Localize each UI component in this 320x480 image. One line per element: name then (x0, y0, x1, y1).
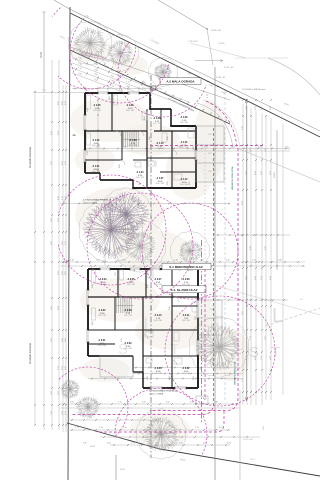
main diagonal boundary dark (70, 13, 320, 137)
svg-text:2.62 / 2.62: 2.62 / 2.62 (136, 177, 144, 179)
svg-text:+10.55: +10.55 (218, 43, 225, 45)
svg-text:A 2.11: A 2.11 (183, 314, 190, 317)
svg-text:2.62 / 2.62: 2.62 / 2.62 (156, 183, 164, 185)
svg-text:T: T (170, 341, 179, 358)
svg-text:0.90: 0.90 (109, 97, 111, 101)
tree T5 (170, 231, 209, 271)
right parcel vertical x=215 (214, 67, 216, 480)
svg-text:A 2.06: A 2.06 (155, 367, 163, 370)
svg-text:A 2.09: A 2.09 (125, 342, 133, 345)
svg-text:A 1.02: A 1.02 (93, 139, 101, 142)
section line x=201.5 (201, 240, 203, 422)
svg-text:5.10: 5.10 (99, 427, 103, 429)
svg-text:A 2.01: A 2.01 (99, 339, 107, 342)
svg-text:2.62 / 2.62: 2.62 / 2.62 (98, 315, 106, 317)
svg-text:±0.00 m² VISINA: ±0.00 m² VISINA (149, 392, 164, 395)
chain y=378.6 (88, 378, 242, 380)
svg-text:+0.00 = 103.50 mnm: +0.00 = 103.50 mnm (246, 89, 265, 91)
svg-text:hrvatskih branitelja: hrvatskih branitelja (29, 343, 32, 364)
svg-text:A 1.07: A 1.07 (157, 177, 165, 180)
magenta horizontal M4 (150, 145, 265, 147)
svg-text:A 1.04: A 1.04 (137, 171, 145, 174)
gray dashed guide line lower right (266, 308, 320, 326)
svg-text:2.00: 2.00 (147, 377, 149, 381)
door arcs b2 (120, 297, 125, 302)
svg-text:12.51 +45: 12.51 +45 (224, 67, 234, 69)
paper mottling (70, 98, 150, 142)
chain y=300 right (215, 299, 288, 301)
svg-text:S: S (249, 344, 259, 361)
svg-text:1.20: 1.20 (87, 109, 89, 113)
svg-text:2.85: 2.85 (70, 402, 74, 404)
svg-text:1.20: 1.20 (150, 147, 154, 149)
svg-text:3.05: 3.05 (285, 147, 289, 149)
svg-text:13.04 +45: 13.04 +45 (216, 77, 226, 79)
note A.5 (160, 78, 201, 84)
stairs building 2 (116, 298, 118, 313)
top horizontal line y=61 (195, 60, 223, 62)
svg-text:A 2.08: A 2.08 (183, 278, 191, 281)
svg-text:2.62 / 2.62: 2.62 / 2.62 (92, 145, 100, 147)
svg-text:1.75: 1.75 (195, 427, 199, 429)
svg-text:2.00: 2.00 (107, 443, 111, 445)
svg-text:2.62 / 2.62: 2.62 / 2.62 (126, 110, 134, 112)
building 1 outer walls (85, 92, 98, 94)
upper light diagonal L2 (158, 0, 207, 29)
svg-text:2.62 / 2.62: 2.62 / 2.62 (124, 315, 132, 317)
magenta setback M3 (150, 148, 238, 411)
svg-text:38.98: 38.98 (40, 51, 43, 58)
top-right light curve (268, 58, 320, 95)
tree T6b purple (100, 188, 151, 240)
svg-text:0.90: 0.90 (83, 443, 87, 445)
tree T4 (114, 220, 165, 272)
svg-text:2.62 / 2.62: 2.62 / 2.62 (127, 284, 135, 286)
section line x=151 (150, 75, 152, 458)
svg-text:24.30: 24.30 (274, 172, 276, 178)
building 2 east terrace (198, 300, 222, 352)
horizontal chain near wall y=88.5 (72, 88, 150, 90)
tree T6a purple (79, 198, 143, 263)
magenta canopy circle C9 (165, 296, 275, 406)
magenta NE arc M5 (206, 101, 237, 147)
tree T8b (76, 397, 100, 420)
tree T1 (68, 21, 111, 65)
chain y=92.5 left of building (33, 92, 85, 94)
svg-text:2.40: 2.40 (214, 402, 218, 404)
tree T3 (149, 57, 178, 86)
tree T2 (101, 34, 138, 72)
svg-text:2.85: 2.85 (258, 147, 262, 149)
road edge diagonal light (54, 0, 320, 131)
svg-text:2.40: 2.40 (70, 260, 74, 262)
building 2 outer walls (88, 268, 100, 270)
svg-text:HIDRANTSKI PRIKLJUČAK: HIDRANTSKI PRIKLJUČAK (231, 166, 234, 190)
building 1 east terrace (196, 126, 224, 182)
svg-text:175.25 m2: 175.25 m2 (243, 439, 254, 441)
svg-text:2.85: 2.85 (193, 147, 195, 151)
chain y=367.5 (133, 367, 240, 369)
svg-text:1.75: 1.75 (195, 317, 197, 321)
svg-text:2.62 / 2.62: 2.62 / 2.62 (92, 171, 100, 173)
svg-text:hrvatskih branitelja: hrvatskih branitelja (29, 147, 32, 168)
svg-text:2.85: 2.85 (208, 171, 212, 173)
svg-text:A 1.01: A 1.01 (93, 165, 101, 168)
left dimension chains (43, 12, 45, 90)
ticks on main diagonal (207, 80, 209, 83)
svg-text:S.1 MEĐUSOBNI ULAZ: S.1 MEĐUSOBNI ULAZ (169, 265, 203, 269)
svg-text:10.55 +45: 10.55 +45 (211, 30, 222, 32)
magenta canopy circle C2 (70, 3, 170, 103)
building 2 fixtures (92, 270, 96, 284)
light line with parcel number (190, 43, 246, 58)
svg-text:A.5 MALA OGRADA: A.5 MALA OGRADA (166, 79, 195, 83)
svg-text:A 2.03: A 2.03 (125, 309, 133, 312)
svg-text:2.62 / 2.62: 2.62 / 2.62 (124, 348, 132, 350)
svg-text:3.50: 3.50 (123, 427, 127, 429)
hatch ticks on D2 (73, 49, 75, 51)
magenta setback M1 (72, 128, 214, 415)
magenta canopy circle C5 (87, 193, 193, 299)
stairs building 1 (123, 132, 125, 147)
svg-text:1.75: 1.75 (121, 339, 123, 343)
svg-text:4.65: 4.65 (92, 322, 94, 326)
svg-text:2.62 / 2.62: 2.62 / 2.62 (156, 148, 164, 150)
svg-text:3.50: 3.50 (231, 147, 235, 149)
chain y=203 (60, 203, 230, 205)
vertical mid chains (97, 96, 99, 172)
svg-text:1.75: 1.75 (252, 260, 256, 262)
svg-text:1.75: 1.75 (75, 427, 79, 429)
dashed vertical x=225 (224, 92, 226, 402)
svg-text:2.62 / 2.62: 2.62 / 2.62 (182, 373, 190, 375)
svg-text:2.62 / 2.62: 2.62 / 2.62 (98, 345, 106, 347)
gray driveway arcs NE corner (197, 103, 233, 148)
svg-text:2.62 / 2.62: 2.62 / 2.62 (93, 110, 101, 112)
svg-text:L: L (272, 305, 283, 327)
right dimension chains (242, 104, 244, 405)
svg-text:0.90: 0.90 (190, 402, 194, 404)
magenta canopy circle C3 (118, 27, 208, 117)
svg-text:0.90: 0.90 (119, 165, 121, 169)
magenta canopy circle C8 (48, 367, 128, 447)
svg-text:A 1.03: A 1.03 (130, 139, 138, 142)
D2 faint continuation (237, 148, 320, 182)
chains y=262-266 (60, 261, 305, 263)
svg-text:3.50: 3.50 (166, 402, 170, 404)
svg-text:A 2.04: A 2.04 (100, 278, 108, 281)
svg-text:A 1.05: A 1.05 (94, 104, 102, 107)
magenta canopy circle C6 (142, 203, 238, 299)
mid chain y=149 (85, 148, 290, 150)
svg-text:0.90: 0.90 (193, 377, 195, 381)
chain y=373.5 (133, 373, 242, 375)
svg-text:2.62 / 2.62: 2.62 / 2.62 (180, 147, 188, 149)
tree T8a (61, 380, 80, 399)
svg-text:T: T (271, 344, 280, 361)
svg-text:2.85: 2.85 (179, 443, 183, 445)
bottom boundary L5 (67, 423, 320, 476)
bottom chains (68, 419, 160, 421)
svg-text:2.00: 2.00 (167, 137, 169, 141)
svg-text:2.62 / 2.62: 2.62 / 2.62 (180, 184, 188, 186)
svg-text:1.75: 1.75 (118, 402, 122, 404)
svg-text:3.05: 3.05 (189, 182, 191, 186)
svg-text:A 2.07: A 2.07 (155, 278, 163, 281)
svg-text:A 1.10: A 1.10 (157, 142, 165, 145)
fence diagonal D2 (70, 50, 230, 124)
svg-text:AL: AL (73, 133, 77, 137)
svg-text:±0.00 m² VISINA: ±0.00 m² VISINA (83, 201, 98, 204)
svg-text:A 2.12: A 2.12 (183, 367, 191, 370)
faint guide diagonal right (210, 284, 320, 315)
svg-text:4.65: 4.65 (219, 427, 223, 429)
building 1 interior (85, 130, 147, 132)
notes S.1 boxed (162, 263, 211, 270)
svg-text:2.85: 2.85 (142, 402, 146, 404)
svg-text:650/4: 650/4 (120, 469, 126, 471)
magenta canopy circle C4 (56, 175, 166, 285)
svg-text:4.65: 4.65 (134, 269, 136, 273)
building 2 interior (88, 296, 198, 298)
magenta setback beside building 2 x=205 (204, 269, 206, 400)
svg-text:2.85: 2.85 (151, 307, 153, 311)
svg-text:2.85: 2.85 (278, 260, 282, 262)
svg-text:3.50: 3.50 (169, 377, 171, 381)
svg-text:2.40: 2.40 (226, 260, 230, 262)
magenta canopy circle C7 (115, 388, 207, 480)
svg-text:1.75: 1.75 (115, 273, 117, 277)
svg-text:A 1.11: A 1.11 (181, 141, 188, 144)
chain y=235 right (215, 234, 290, 236)
svg-text:2.85: 2.85 (92, 285, 94, 289)
svg-text:4.65: 4.65 (149, 137, 151, 141)
chains y=404-408 (60, 403, 240, 405)
svg-text:A 2.02: A 2.02 (99, 309, 107, 312)
svg-text:651/1: 651/1 (250, 459, 256, 461)
tree T7 (136, 409, 185, 459)
svg-text:650/3: 650/3 (90, 446, 96, 448)
left boundary (68, 7, 70, 480)
building 2 bottom-left terrace (100, 356, 133, 377)
svg-text:2.62 / 2.62: 2.62 / 2.62 (154, 320, 162, 322)
svg-text:HIDRANTSKI PRIKLJUČAK: HIDRANTSKI PRIKLJUČAK (234, 361, 237, 385)
magenta canopy circle C1 (44, 0, 136, 89)
svg-text:2.40: 2.40 (174, 260, 178, 262)
vertical droppers (84, 86, 86, 93)
svg-text:A 2.10: A 2.10 (155, 314, 163, 317)
svg-text:5.10: 5.10 (87, 152, 89, 156)
svg-text:A 1.09: A 1.09 (181, 116, 189, 119)
door arcs b1 (116, 131, 121, 136)
svg-text:2.62 / 2.62: 2.62 / 2.62 (153, 123, 161, 125)
svg-text:S.1. GLAVNI ULAZ: S.1. GLAVNI ULAZ (171, 288, 198, 292)
svg-text:2.62 / 2.62: 2.62 / 2.62 (129, 145, 137, 147)
tree T9 (189, 317, 249, 378)
svg-text:A 2.05: A 2.05 (128, 278, 136, 281)
fence-parallel dimension chains (72, 58, 190, 103)
svg-text:0.90: 0.90 (227, 443, 231, 445)
svg-text:5.10: 5.10 (204, 147, 208, 149)
svg-text:2.62 / 2.62: 2.62 / 2.62 (154, 284, 162, 286)
svg-text:4.7 RUB ZGRADE PRIZEMLJA: 4.7 RUB ZGRADE PRIZEMLJA (83, 199, 112, 202)
magenta vertical x=224 bottom (95, 411, 224, 432)
svg-text:2.40: 2.40 (144, 117, 146, 121)
svg-text:2.62 / 2.62: 2.62 / 2.62 (180, 122, 188, 124)
svg-text:1.23 650/2: 1.23 650/2 (188, 41, 199, 43)
svg-text:2.85: 2.85 (208, 153, 212, 155)
svg-text:1.75: 1.75 (131, 443, 135, 445)
svg-text:3.05: 3.05 (167, 182, 169, 186)
building 1 fixtures (87, 95, 91, 109)
svg-text:2.62 / 2.62: 2.62 / 2.62 (182, 320, 190, 322)
svg-text:2.62 / 2.62: 2.62 / 2.62 (154, 373, 162, 375)
svg-text:3.50: 3.50 (147, 285, 149, 289)
svg-text:3.50: 3.50 (169, 307, 171, 311)
svg-text:A 1.08: A 1.08 (154, 117, 162, 120)
svg-text:2.85: 2.85 (208, 134, 212, 136)
svg-text:A 1.12: A 1.12 (181, 178, 189, 181)
svg-text:4.65: 4.65 (129, 92, 131, 96)
